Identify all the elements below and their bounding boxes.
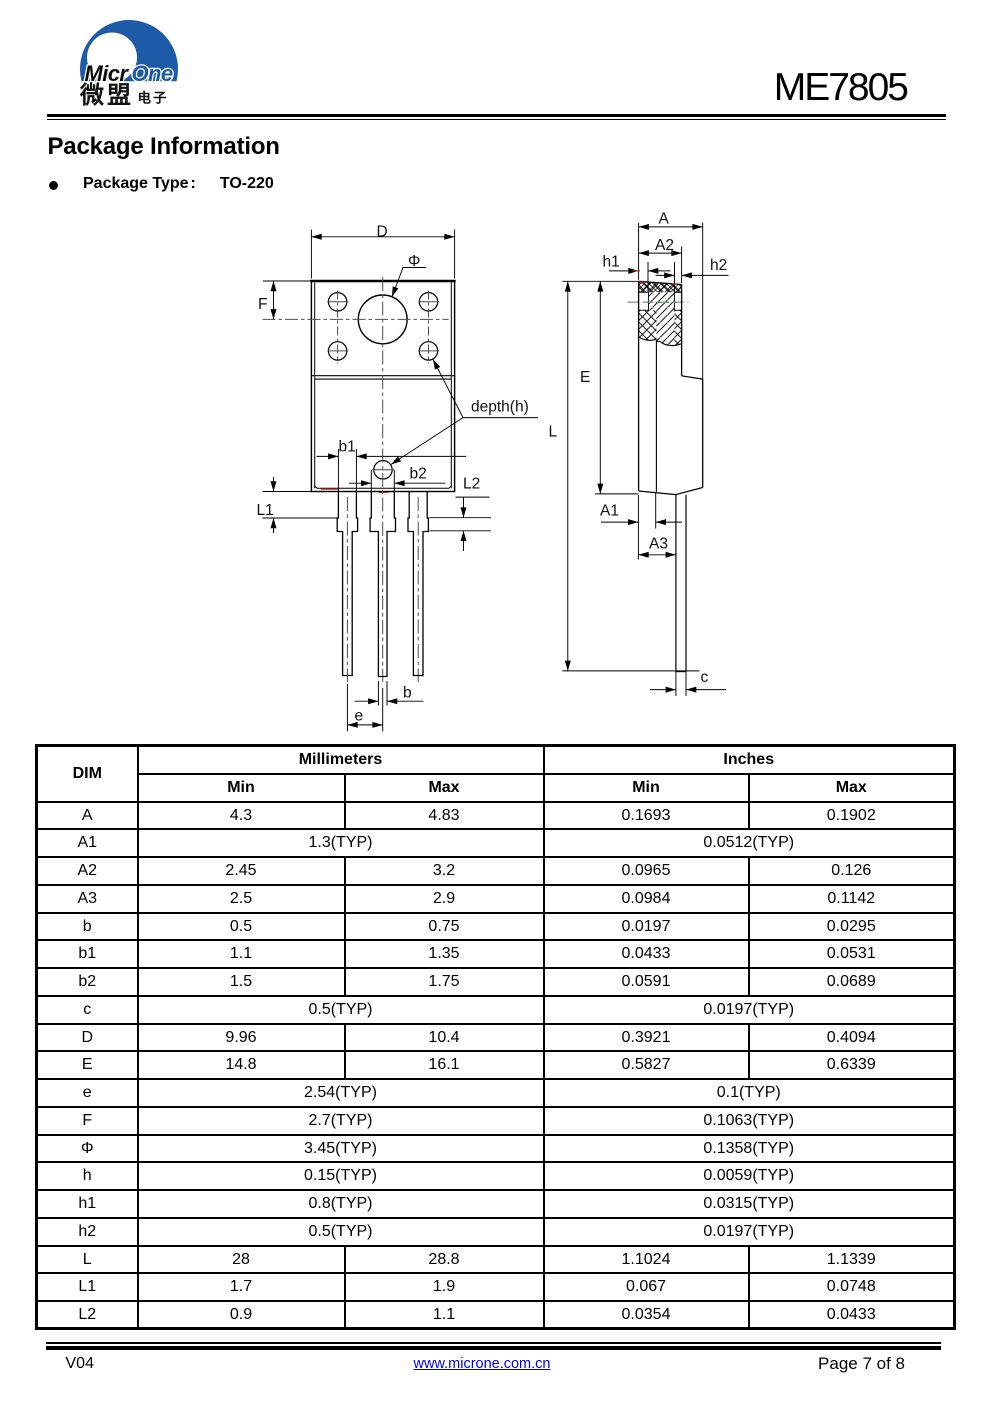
dimension table xyxy=(35,744,956,1330)
dimension b xyxy=(355,681,424,706)
svg-text:b2: b2 xyxy=(410,466,427,483)
svg-text:h1: h1 xyxy=(603,253,620,270)
centerlines front view xyxy=(263,277,449,682)
dimension b2 xyxy=(349,470,446,492)
dimension E xyxy=(595,281,638,494)
footer double rule xyxy=(46,1342,941,1344)
package drawing SVG: TO-220 front and side views xyxy=(0,0,991,744)
dimension b1 xyxy=(317,449,467,492)
dimension A1 xyxy=(601,493,682,560)
footer text xyxy=(66,1355,94,1373)
dimension A2 xyxy=(639,247,682,284)
svg-text:Φ: Φ xyxy=(408,253,420,270)
MicrOne logo xyxy=(70,12,220,117)
dimension A xyxy=(639,223,703,379)
dimension h2 xyxy=(656,274,729,276)
svg-text:A1: A1 xyxy=(600,502,619,519)
svg-text:L2: L2 xyxy=(463,476,480,493)
small hole bottom-right xyxy=(419,342,437,360)
dimension h1 xyxy=(609,262,675,293)
svg-text:F: F xyxy=(258,296,267,313)
front view body outline xyxy=(310,281,455,492)
dimension D xyxy=(311,230,454,279)
depth hole circle xyxy=(374,461,392,479)
dimension L1 xyxy=(263,477,338,533)
svg-text:e: e xyxy=(355,708,364,725)
small hole bottom-left xyxy=(328,342,346,360)
small hole top-right xyxy=(419,293,437,311)
header double rule xyxy=(47,114,946,118)
side view body outline xyxy=(639,281,703,494)
dimension L2 xyxy=(430,497,492,551)
lead 1 (front) xyxy=(337,492,357,676)
svg-text:b: b xyxy=(403,685,412,702)
mounting hole (big circle) xyxy=(358,295,407,344)
dimension L xyxy=(562,281,699,671)
svg-text:A3: A3 xyxy=(649,536,668,553)
svg-text:D: D xyxy=(377,223,388,240)
lead 3 (front) xyxy=(408,492,428,676)
dimension e xyxy=(347,684,382,732)
small hole top-left xyxy=(328,293,346,311)
red CAD artifacts xyxy=(321,271,677,493)
svg-text:c: c xyxy=(701,669,709,686)
svg-text:depth(h): depth(h) xyxy=(471,399,529,416)
dimension c xyxy=(650,672,726,696)
side view hatched tab section xyxy=(639,281,682,345)
section heading xyxy=(48,133,280,161)
svg-text:E: E xyxy=(580,369,590,386)
svg-text:b1: b1 xyxy=(339,438,356,455)
svg-text:L: L xyxy=(549,424,558,441)
svg-text:L1: L1 xyxy=(257,502,274,519)
svg-text:A: A xyxy=(659,211,670,228)
dimension PHI callout xyxy=(392,268,426,298)
depth(h) callout xyxy=(391,359,538,464)
lead 2 (front) xyxy=(370,492,395,677)
svg-text:A2: A2 xyxy=(655,237,674,254)
hole centerline (side) xyxy=(628,301,689,303)
ME7805 title xyxy=(607,65,907,111)
dimension A3 xyxy=(638,554,676,556)
bullet item xyxy=(49,181,58,190)
dimension F xyxy=(263,281,311,319)
svg-text:h2: h2 xyxy=(710,257,727,274)
side lead xyxy=(676,495,686,672)
